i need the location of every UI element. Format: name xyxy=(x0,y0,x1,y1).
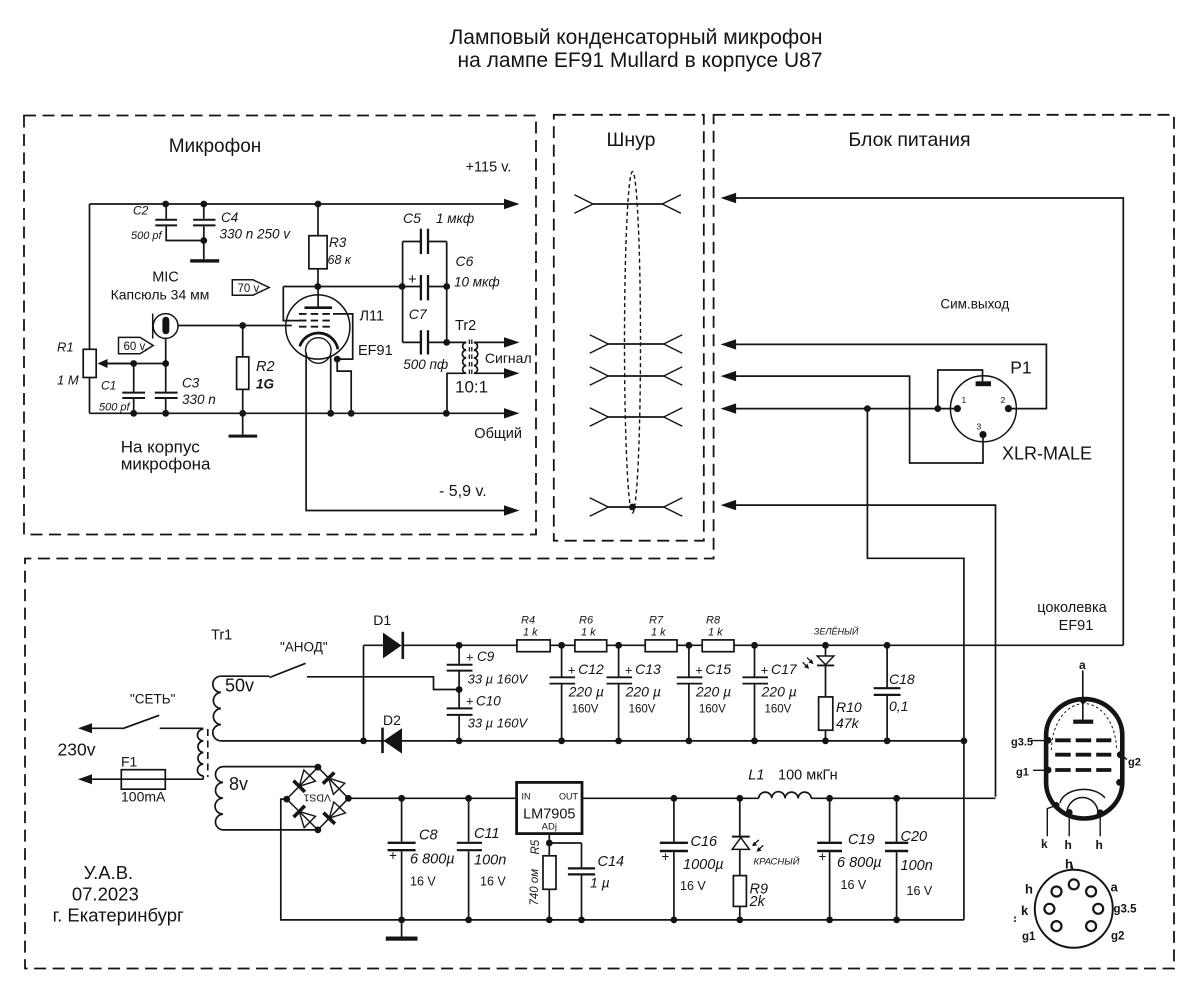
pinout label g3.5 xyxy=(1031,740,1048,742)
wire LM7905 out rail xyxy=(582,797,759,799)
resistor R8 xyxy=(702,640,734,652)
wire ADJ net xyxy=(548,834,550,843)
svg-text:EF91: EF91 xyxy=(1059,618,1094,634)
LED green xyxy=(825,645,827,656)
svg-text:100mA: 100mA xyxy=(121,789,166,805)
junction dot on negative rail xyxy=(671,917,678,924)
capacitor C15 xyxy=(688,645,690,676)
svg-text:100n: 100n xyxy=(901,858,933,874)
wire HT rail segment 2 xyxy=(550,644,575,646)
pinout lead h right xyxy=(1099,813,1101,837)
svg-text:+: + xyxy=(389,848,397,863)
svg-text:1 k: 1 k xyxy=(708,626,723,638)
junction dot D1 anode riser xyxy=(360,738,367,745)
svg-text:C8: C8 xyxy=(419,828,438,844)
cable wire 5 (shield) xyxy=(608,506,663,508)
arrow 230v line top xyxy=(78,723,92,733)
bridge rectifier VDS1 xyxy=(287,767,318,799)
svg-text:C14: C14 xyxy=(598,854,625,870)
svg-text:160V: 160V xyxy=(699,704,726,716)
svg-text:R2: R2 xyxy=(256,359,275,375)
transformer Tr2 secondary xyxy=(474,342,478,373)
junction dot on HT rail xyxy=(558,642,565,649)
svg-text:1 k: 1 k xyxy=(523,626,538,638)
svg-text:70 v: 70 v xyxy=(238,283,260,295)
svg-text:+: + xyxy=(568,663,576,678)
svg-text:g3.5: g3.5 xyxy=(1011,737,1033,749)
junction dot LED red top xyxy=(736,795,743,802)
transformer Tr1 primary xyxy=(197,729,203,776)
junction dot bridge left xyxy=(283,796,290,803)
capacitor C13 xyxy=(618,645,620,676)
capacitor C5 xyxy=(403,241,421,243)
capacitor C10 xyxy=(458,690,460,708)
junction dot C7 right xyxy=(443,339,450,346)
junction dot on common rail xyxy=(239,410,246,417)
svg-text:g2: g2 xyxy=(1111,931,1124,943)
svg-text:+: + xyxy=(819,849,827,864)
svg-text:1G: 1G xyxy=(256,376,275,391)
transformer Tr1 core xyxy=(207,729,209,777)
microphone capsule MIC xyxy=(153,314,178,339)
arrow input signal bottom xyxy=(721,371,737,381)
XLR pin 3 xyxy=(979,431,986,438)
svg-text:Шнур: Шнур xyxy=(606,129,655,151)
junction dot on common rail xyxy=(130,410,137,417)
junction dot C11 top xyxy=(465,795,472,802)
transformer Tr2 primary xyxy=(447,341,467,343)
svg-text:+: + xyxy=(761,663,769,678)
svg-text:C2: C2 xyxy=(133,204,149,218)
svg-text:h: h xyxy=(1096,838,1103,852)
transformer Tr2 core xyxy=(468,340,470,377)
junction dot on negative rail xyxy=(398,917,405,924)
svg-text:микрофона: микрофона xyxy=(121,455,211,474)
svg-text:КРАСНЫЙ: КРАСНЫЙ xyxy=(754,856,800,868)
svg-text:LM7905: LM7905 xyxy=(523,807,575,823)
svg-text:1 µ: 1 µ xyxy=(590,875,610,891)
pinout base circle xyxy=(1035,870,1113,948)
svg-text:R3: R3 xyxy=(329,235,347,250)
capacitor C7 xyxy=(403,341,421,343)
XLR connector P1 shell xyxy=(950,376,1016,442)
cable section dashed box xyxy=(554,115,704,541)
junction dot bridge bottom xyxy=(315,827,322,834)
junction dot C19 top xyxy=(826,795,833,802)
junction dot on common rail xyxy=(443,410,450,417)
wire left branch to R1 xyxy=(89,204,91,349)
junction dot on common rail xyxy=(162,410,169,417)
svg-text:220 µ: 220 µ xyxy=(695,684,731,700)
diode D1 xyxy=(364,644,384,646)
svg-text:+: + xyxy=(625,663,633,678)
svg-text:+: + xyxy=(408,271,417,288)
arrow input common xyxy=(721,403,737,413)
svg-text:Блок питания: Блок питания xyxy=(848,129,970,151)
wire to XLR pin 2 xyxy=(734,344,1046,408)
arrow Сигнал top xyxy=(504,337,520,347)
pinout anode bar xyxy=(1073,720,1093,724)
junction dot on HT rail xyxy=(456,642,463,649)
resistor R7 xyxy=(645,640,677,652)
cable wire 1 xyxy=(593,203,662,205)
svg-text:a: a xyxy=(1079,658,1086,672)
wire mic common rail xyxy=(90,412,507,414)
wire heater right lead xyxy=(330,356,332,414)
svg-text:h: h xyxy=(1065,838,1072,852)
svg-text:+: + xyxy=(466,694,474,709)
svg-text:1 M: 1 M xyxy=(57,373,79,388)
wire capsule to grid xyxy=(178,325,292,327)
tube anode lead xyxy=(317,287,319,308)
junction dot on anode common rail xyxy=(822,738,829,745)
junction dot on negative rail xyxy=(546,917,553,924)
junction dot on HT rail xyxy=(822,642,829,649)
junction dot C8 top xyxy=(398,795,405,802)
svg-text:У.А.В.: У.А.В. xyxy=(84,862,133,883)
svg-text:"СЕТЬ": "СЕТЬ" xyxy=(130,691,176,706)
junction dot on anode common rail xyxy=(751,738,758,745)
wire R1 wiper net xyxy=(106,363,166,365)
pinout label g1 xyxy=(1033,769,1048,771)
svg-text:C9: C9 xyxy=(477,649,495,664)
pinout lead k xyxy=(1047,805,1056,836)
svg-text:C4: C4 xyxy=(221,210,238,225)
svg-text:47k: 47k xyxy=(836,715,860,731)
junction dot on negative rail xyxy=(465,917,472,924)
svg-text:160V: 160V xyxy=(629,704,656,716)
svg-text:C1: C1 xyxy=(101,379,116,393)
svg-text:C16: C16 xyxy=(691,834,719,850)
svg-text:k: k xyxy=(1021,903,1029,918)
inductor L1 xyxy=(759,792,812,799)
svg-text:100n: 100n xyxy=(474,853,506,869)
wire 8v top to bridge xyxy=(223,766,318,768)
svg-text:+: + xyxy=(662,849,670,864)
svg-text:6 800µ: 6 800µ xyxy=(837,855,882,871)
arrow input signal top xyxy=(721,339,737,349)
microphone section dashed box xyxy=(24,116,536,535)
wire capsule bottom lead xyxy=(165,339,167,364)
svg-text:1 k: 1 k xyxy=(651,626,666,638)
svg-text:h: h xyxy=(1025,882,1033,897)
pinout grid rows xyxy=(1055,738,1111,742)
svg-text:g3.5: g3.5 xyxy=(1114,904,1138,916)
svg-text:160V: 160V xyxy=(572,704,599,716)
wire heater left lead to -5.9 xyxy=(306,353,506,511)
svg-text:C12: C12 xyxy=(578,661,604,677)
svg-text:16 V: 16 V xyxy=(907,884,933,898)
svg-text:Ламповый конденсаторный микроф: Ламповый конденсаторный микрофон xyxy=(450,26,823,49)
svg-text:+: + xyxy=(695,663,703,678)
svg-text:C17: C17 xyxy=(771,661,798,677)
capacitor C4 xyxy=(203,204,205,219)
svg-text:R8: R8 xyxy=(706,615,721,627)
resistor R10 xyxy=(825,665,827,697)
resistor R5 xyxy=(548,843,550,856)
chassis ground bar below C4 xyxy=(190,259,219,262)
svg-text:IN: IN xyxy=(522,792,531,802)
svg-text:Сигнал: Сигнал xyxy=(485,350,532,366)
junction dot on negative rail xyxy=(893,917,900,924)
svg-text:3: 3 xyxy=(977,422,982,432)
svg-text:г. Екатеринбург: г. Екатеринбург xyxy=(53,905,184,926)
pinout label g2 xyxy=(1120,755,1127,760)
wire HT rail segment 4 xyxy=(677,644,702,646)
svg-text:8v: 8v xyxy=(229,774,248,794)
svg-text:500 pf: 500 pf xyxy=(131,230,163,242)
transformer Tr1 secondary 8v xyxy=(215,767,223,830)
pinout base lead h top xyxy=(1071,862,1073,870)
junction dot bridge top xyxy=(315,764,322,771)
junction dot on anode common rail xyxy=(558,738,565,745)
junction dot C9/C10 midpoint xyxy=(456,686,463,693)
junction dot C3 top xyxy=(162,360,169,367)
junction dot on common rail xyxy=(348,410,355,417)
wire anode common rail xyxy=(221,740,964,742)
svg-text:На корпус: На корпус xyxy=(121,437,201,456)
svg-text:- 5,9 v.: - 5,9 v. xyxy=(439,483,487,500)
svg-text:C13: C13 xyxy=(635,661,661,677)
wire common riser xyxy=(867,409,964,920)
svg-text:R7: R7 xyxy=(649,615,664,627)
XLR pin 1 xyxy=(954,405,961,412)
junction dot on HT rail xyxy=(686,642,693,649)
svg-text:330 n 250 v: 330 n 250 v xyxy=(220,227,292,242)
wire Сигнал top xyxy=(474,341,506,343)
wire after L1 xyxy=(811,797,995,799)
svg-text:ЗЕЛЁНЫЙ: ЗЕЛЁНЫЙ xyxy=(814,626,859,637)
cable shield ellipse xyxy=(625,172,641,513)
svg-text:R1: R1 xyxy=(57,340,74,355)
junction dot on anode common rail xyxy=(456,738,463,745)
junction dot bridge right xyxy=(345,795,352,802)
svg-text:07.2023: 07.2023 xyxy=(72,884,139,905)
svg-text:100 мкГн: 100 мкГн xyxy=(778,768,838,784)
wire АНОД to C9/C10 midpoint xyxy=(307,677,459,690)
tube Л11 EF91 envelope xyxy=(286,295,350,359)
svg-text:D1: D1 xyxy=(373,612,391,628)
svg-text:33 µ 160V: 33 µ 160V xyxy=(468,672,529,687)
pinout base key mark xyxy=(1014,917,1016,923)
svg-text:L1: L1 xyxy=(748,768,764,784)
svg-text:C15: C15 xyxy=(705,661,731,677)
junction dot C20 top xyxy=(893,795,900,802)
pinout anode lead xyxy=(1082,671,1084,720)
svg-text:C7: C7 xyxy=(409,306,428,322)
junction dot C16 top xyxy=(671,795,678,802)
resistor R6 xyxy=(575,640,607,652)
junction dot C5C6C7 left xyxy=(399,283,406,290)
arrow -5.9 v output xyxy=(504,505,520,515)
wire screen grid strap xyxy=(283,287,306,321)
svg-text:60 v.: 60 v. xyxy=(124,341,148,353)
junction dot C1 top xyxy=(130,360,137,367)
capacitor C14 xyxy=(581,843,583,867)
capacitor C12 xyxy=(561,645,563,676)
wire bridge left to negative rail xyxy=(281,799,964,920)
svg-text:6 800µ: 6 800µ xyxy=(410,852,455,868)
svg-text:1: 1 xyxy=(962,395,967,405)
svg-text:a: a xyxy=(1111,880,1119,895)
svg-text:2k: 2k xyxy=(749,894,766,910)
svg-text:C20: C20 xyxy=(901,829,928,845)
tube grid g1 row xyxy=(299,326,332,328)
wire C5C6C7 right bracket xyxy=(446,242,448,343)
wire +115 feed xyxy=(734,198,1123,645)
junction dot shield bracket xyxy=(934,405,941,412)
junction dot on HT rail xyxy=(884,642,891,649)
wire C5C6C7 left bracket xyxy=(402,242,404,343)
svg-text:R4: R4 xyxy=(521,615,535,627)
svg-text:Tr2: Tr2 xyxy=(455,318,476,334)
capacitor C18 xyxy=(886,645,888,687)
svg-text:500 pf: 500 pf xyxy=(99,402,131,414)
svg-text:230v: 230v xyxy=(58,740,96,760)
junction dot on negative rail xyxy=(736,917,743,924)
capacitor C20 xyxy=(896,798,898,841)
svg-text:220 µ: 220 µ xyxy=(625,684,661,700)
fuse F1 xyxy=(91,778,122,780)
svg-text:"АНОД": "АНОД" xyxy=(280,640,328,655)
XLR keyway xyxy=(976,381,991,386)
svg-text:0,1: 0,1 xyxy=(889,698,908,714)
voltage flag 70 v xyxy=(232,280,269,295)
tube grid g2 row xyxy=(299,320,332,322)
svg-text:1 k: 1 k xyxy=(581,626,596,638)
svg-text:2: 2 xyxy=(1001,395,1006,405)
switch СЕТЬ xyxy=(91,727,123,729)
wire HT rail segment 3 xyxy=(607,644,646,646)
svg-text:220 µ: 220 µ xyxy=(761,684,797,700)
wire to XLR pin 1 xyxy=(734,408,957,410)
wire 8v bottom to bridge xyxy=(223,829,318,831)
capacitor C11 xyxy=(468,798,470,841)
junction dot on common rail xyxy=(327,410,334,417)
svg-text:C10: C10 xyxy=(476,694,501,709)
cable wire 3 xyxy=(608,375,663,377)
regulator LM7905 xyxy=(517,782,582,833)
junction dot shield xyxy=(629,504,636,511)
junction dot on negative rail xyxy=(578,917,585,924)
svg-text:VDS1: VDS1 xyxy=(303,792,331,804)
capacitor C1 xyxy=(133,364,135,392)
svg-text:740 ом: 740 ом xyxy=(529,869,541,906)
svg-text:g1: g1 xyxy=(1022,931,1036,943)
svg-text:160V: 160V xyxy=(765,704,792,716)
wire g3-cathode strap xyxy=(333,314,353,359)
junction dot C2/C4 bottom xyxy=(200,237,207,244)
pinout base pins xyxy=(1069,879,1079,889)
chassis ground bar below R2 xyxy=(229,435,258,438)
wire R1 bottom xyxy=(89,378,91,414)
svg-text:R6: R6 xyxy=(579,615,594,627)
voltage flag 60 v. xyxy=(119,337,154,353)
svg-text:33 µ 160V: 33 µ 160V xyxy=(468,716,529,731)
cable wire 4 xyxy=(608,416,663,418)
capacitor C3 xyxy=(165,364,167,392)
pinout inner dashed arc xyxy=(1052,704,1117,750)
XLR pin 2 xyxy=(1005,405,1012,412)
junction dot on anode common rail xyxy=(884,738,891,745)
svg-text:16 V: 16 V xyxy=(480,875,506,889)
svg-text:C3: C3 xyxy=(182,376,200,391)
junction dot on HT rail xyxy=(751,642,758,649)
svg-text:Капсюль 34 мм: Капсюль 34 мм xyxy=(111,287,210,303)
АНОД switch blade xyxy=(270,663,306,677)
junction dot common/mid rail xyxy=(961,738,968,745)
LED red xyxy=(739,798,741,836)
capacitor C6 xyxy=(420,275,422,300)
resistor R2 xyxy=(242,326,244,357)
capacitor C19 xyxy=(829,798,831,841)
capacitor C9 xyxy=(458,645,460,664)
svg-text:16 V: 16 V xyxy=(841,878,867,892)
arrow input heater xyxy=(721,500,737,510)
tube heater loop xyxy=(306,338,332,364)
tube anode plate xyxy=(305,306,333,309)
svg-text:1 мкф: 1 мкф xyxy=(436,211,474,226)
svg-text:+: + xyxy=(466,650,474,665)
arrow Общий output xyxy=(504,408,520,418)
svg-text:XLR-MALE: XLR-MALE xyxy=(1002,444,1092,464)
svg-text:+115 v.: +115 v. xyxy=(466,160,512,176)
wire shield to keyway xyxy=(938,370,983,409)
svg-text:10:1: 10:1 xyxy=(455,378,488,397)
svg-text:F1: F1 xyxy=(121,754,138,770)
wire HT rail segment 5 xyxy=(734,644,1123,646)
svg-text:g2: g2 xyxy=(1128,757,1141,769)
svg-text:R5: R5 xyxy=(530,839,542,854)
svg-text:500 пф: 500 пф xyxy=(403,357,448,372)
svg-text:C19: C19 xyxy=(848,832,875,848)
svg-text:D2: D2 xyxy=(383,712,401,728)
node dot R3 top xyxy=(315,201,322,208)
cable wire 2 xyxy=(608,343,663,345)
node dot C2 top xyxy=(162,201,169,208)
svg-text:k: k xyxy=(1041,837,1048,851)
arrow +115 V output xyxy=(504,199,520,209)
svg-text:P1: P1 xyxy=(1010,358,1031,378)
wire Сигнал bottom xyxy=(474,372,506,374)
junction dot on HT rail xyxy=(615,642,622,649)
svg-text:MIC: MIC xyxy=(152,270,179,286)
svg-text:1000µ: 1000µ xyxy=(683,857,724,873)
arrow Сигнал bottom xyxy=(504,368,520,378)
resistor R4 xyxy=(517,640,550,652)
svg-text:330 n: 330 n xyxy=(182,392,216,407)
pinout tube outline xyxy=(1046,699,1122,818)
capacitor C16 xyxy=(673,798,675,841)
svg-text:Микрофон: Микрофон xyxy=(169,136,262,157)
pinout pin blobs xyxy=(1045,737,1052,744)
svg-text:C5: C5 xyxy=(403,210,421,226)
capacitor C17 xyxy=(754,645,756,676)
junction dot R2 top xyxy=(239,322,246,329)
svg-text:10 мкф: 10 мкф xyxy=(454,275,500,290)
arrow 230v line bottom xyxy=(78,774,92,784)
junction dot cathode xyxy=(334,356,341,363)
svg-text:C6: C6 xyxy=(456,253,474,269)
arrow input +115 xyxy=(721,193,737,203)
svg-text:h: h xyxy=(1065,857,1073,872)
junction dot on anode common rail xyxy=(615,738,622,745)
tube grid g3 row xyxy=(299,313,332,315)
wire heater feed xyxy=(734,505,996,797)
svg-text:Общий: Общий xyxy=(474,426,522,442)
wire HT rail segment 1 xyxy=(403,644,517,646)
wire D1 anode riser xyxy=(363,645,365,741)
